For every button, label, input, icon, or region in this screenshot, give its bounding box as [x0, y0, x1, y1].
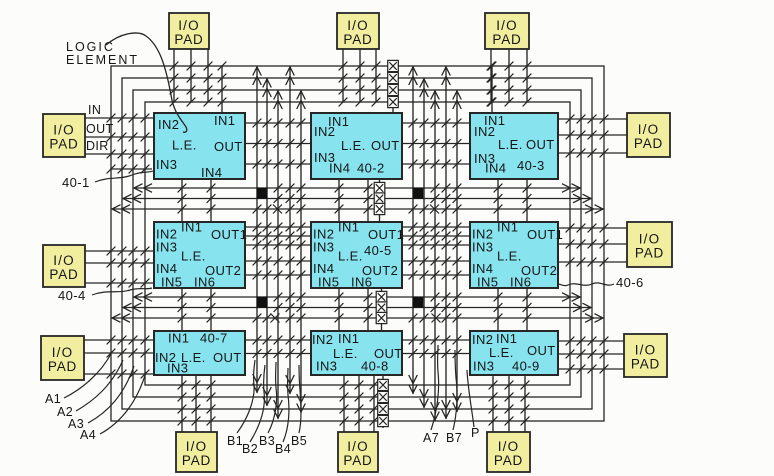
junction: filled connection square: [257, 297, 268, 308]
wire: left pad 1 leads: [85, 114, 154, 159]
wire: horizontal channel 1 line 3: [111, 205, 604, 214]
svg-text:IN1: IN1: [338, 220, 359, 235]
svg-text:IN5: IN5: [318, 275, 339, 290]
wire: IN1 stub column 1: [218, 62, 227, 113]
wire: right pad 1 leads: [558, 115, 627, 158]
wire: routing ring 4: [145, 102, 570, 385]
labels: logic element 40-4: [156, 220, 247, 290]
svg-text:IN6: IN6: [194, 275, 215, 290]
svg-text:L.E.: L.E.: [181, 249, 206, 264]
wire: vertical channel B2: [420, 78, 429, 408]
I/O pad 3: [485, 13, 529, 49]
svg-text:IN2: IN2: [158, 117, 179, 132]
svg-text:IN4: IN4: [485, 161, 506, 176]
wire: row 1 channel B interconnect lines: [402, 119, 470, 169]
wire: row 2 channel B interconnect lines: [402, 223, 470, 280]
svg-text:PAD: PAD: [174, 32, 203, 47]
label: 40-4 with leader: [58, 288, 152, 303]
svg-text:40-5: 40-5: [364, 243, 392, 258]
svg-text:IN: IN: [88, 103, 101, 117]
junction: x-mark: [432, 314, 441, 323]
svg-text:OUT1: OUT1: [368, 227, 404, 242]
wire: inter-row stubs column 1: [178, 179, 216, 331]
svg-text:40-3: 40-3: [517, 158, 545, 173]
svg-text:IN2: IN2: [312, 332, 333, 347]
svg-text:OUT: OUT: [527, 343, 556, 358]
svg-text:40-2: 40-2: [357, 161, 385, 176]
junction: x-mark: [430, 205, 439, 214]
labels: logic element 40-7: [155, 331, 242, 376]
wire: bottom pad 3 leads: [489, 375, 530, 432]
I/O pad 11: [627, 222, 672, 267]
wire: routing ring 1: [111, 66, 604, 421]
svg-text:P: P: [471, 426, 480, 440]
svg-text:40-8: 40-8: [361, 359, 389, 374]
wire: routing ring 2: [122, 78, 592, 409]
switch box stack: bottom channel: [378, 375, 389, 428]
switch box stack: channel 1: [374, 179, 385, 222]
logic element 40-2: [311, 113, 402, 179]
wire: row 3 channel B interconnect lines: [402, 336, 470, 358]
svg-text:PAD: PAD: [48, 359, 77, 374]
svg-text:PAD: PAD: [182, 453, 211, 468]
svg-text:A1: A1: [45, 392, 61, 406]
label: 40-6 with leader: [558, 275, 644, 290]
svg-text:OUT: OUT: [214, 139, 243, 154]
logic element 40-5: [311, 222, 402, 288]
svg-text:PAD: PAD: [343, 32, 372, 47]
wire: left pad 3 leads: [84, 336, 154, 379]
wire: IN1 stub column 3: [488, 62, 497, 113]
svg-text:IN1: IN1: [181, 220, 202, 235]
svg-text:IN3: IN3: [156, 157, 177, 172]
wire: vertical channel B1: [409, 66, 418, 394]
svg-text:OUT: OUT: [526, 137, 555, 152]
svg-text:PAD: PAD: [49, 137, 78, 152]
svg-text:PAD: PAD: [49, 267, 78, 282]
svg-text:IN5: IN5: [161, 275, 182, 290]
svg-text:I/O: I/O: [178, 18, 200, 33]
wire: horizontal channel 2 line 1: [133, 293, 581, 302]
logic element 40-6: [470, 222, 558, 288]
I/O pad 8: [43, 245, 85, 287]
wire: bottom pad 1 leads: [178, 375, 216, 432]
svg-text:IN3: IN3: [313, 240, 334, 255]
svg-text:L.E.: L.E.: [497, 249, 522, 264]
svg-text:B2: B2: [242, 442, 258, 456]
wire: row 3 channel A interconnect lines: [245, 336, 311, 358]
I/O pad 10: [627, 113, 670, 157]
svg-text:I/O: I/O: [53, 123, 75, 138]
junction: x-mark: [271, 314, 280, 323]
svg-text:IN3: IN3: [473, 359, 494, 374]
svg-text:IN3: IN3: [156, 240, 177, 255]
labels: logic element 40-2: [314, 114, 400, 176]
svg-text:L.E.: L.E.: [172, 138, 197, 153]
svg-text:OUT1: OUT1: [527, 227, 563, 242]
svg-text:ELEMENT: ELEMENT: [66, 53, 139, 67]
svg-text:IN1: IN1: [338, 331, 359, 346]
wire: right pad 2 leads: [558, 224, 627, 267]
wire: horizontal channel 1 line 1: [133, 184, 581, 193]
wire: vertical channel B3: [431, 90, 440, 421]
labels: logic element 40-6: [472, 220, 563, 290]
svg-text:DIR: DIR: [86, 139, 109, 153]
svg-text:I/O: I/O: [639, 232, 661, 247]
labels: logic element 40-8: [312, 331, 403, 374]
wire: vertical channel A5: [297, 90, 306, 413]
svg-text:I/O: I/O: [186, 439, 208, 454]
svg-text:I/O: I/O: [347, 439, 369, 454]
svg-text:40-7: 40-7: [200, 331, 228, 346]
svg-text:I/O: I/O: [496, 18, 518, 33]
logic element 40-4: [154, 222, 245, 288]
logic element 40-1: [154, 113, 245, 179]
svg-text:IN4: IN4: [201, 165, 222, 180]
svg-text:A7: A7: [423, 431, 439, 445]
svg-text:IN3: IN3: [316, 359, 337, 374]
svg-text:PAD: PAD: [634, 136, 663, 151]
wire: input stub row near 40-1: [107, 165, 152, 174]
wire: top pad 2 leads: [339, 49, 381, 106]
svg-text:40-4: 40-4: [58, 288, 86, 303]
svg-text:IN2: IN2: [314, 124, 335, 139]
svg-text:IN3: IN3: [167, 361, 188, 376]
wire: vertical channel A3: [274, 90, 283, 419]
wire: vertical channel A4: [286, 66, 295, 394]
wire: bottom pad 2 leads: [340, 375, 379, 432]
labels: logic element 40-9: [472, 331, 556, 374]
svg-text:PAD: PAD: [635, 246, 664, 261]
junction: filled connection square: [413, 297, 424, 308]
svg-text:IN1: IN1: [168, 331, 189, 346]
svg-text:IN2: IN2: [474, 124, 495, 139]
wire: top pad 1 leads: [170, 49, 213, 106]
label: LOGIC ELEMENT: [66, 40, 139, 67]
svg-text:B4: B4: [275, 442, 291, 456]
svg-text:PAD: PAD: [494, 453, 523, 468]
junction: x-mark: [273, 205, 282, 214]
junction: filled connection square: [257, 188, 268, 199]
svg-text:I/O: I/O: [635, 343, 657, 358]
svg-text:IN6: IN6: [510, 275, 531, 290]
labels: logic element 40-5: [313, 220, 404, 290]
wire: row 2 channel A interconnect lines: [245, 223, 311, 280]
svg-text:40-6: 40-6: [616, 275, 644, 290]
svg-text:OUT: OUT: [213, 350, 242, 365]
svg-text:LOGIC: LOGIC: [66, 40, 115, 54]
svg-text:B3: B3: [259, 434, 275, 448]
labels: logic element 40-3: [474, 113, 555, 176]
svg-text:40-9: 40-9: [512, 359, 540, 374]
leader: logic element pointer: [106, 33, 187, 132]
I/O pad 2: [337, 13, 379, 49]
wire: horizontal channel 1 line 2: [122, 194, 592, 203]
wire: inter-row stubs column 2: [335, 179, 373, 331]
wire: horizontal channel 2 line 3: [111, 314, 604, 323]
logic element 40-3: [470, 113, 558, 179]
labels: IN OUT DIR: [86, 103, 114, 153]
labels: A7 B7 P with leaders: [423, 345, 480, 445]
wire: vertical channel B5: [453, 90, 462, 412]
svg-text:L.E.: L.E.: [498, 137, 523, 152]
svg-text:I/O: I/O: [638, 122, 660, 137]
svg-text:IN1: IN1: [214, 113, 235, 128]
svg-text:PAD: PAD: [343, 453, 372, 468]
svg-text:I/O: I/O: [53, 253, 75, 268]
svg-text:IN1: IN1: [496, 331, 517, 346]
svg-text:I/O: I/O: [347, 18, 369, 33]
wire: row 1 channel A interconnect lines: [245, 119, 311, 169]
wire: vertical channel A1: [253, 66, 262, 393]
I/O pad 9: [41, 336, 84, 380]
switch box stack: channel 2: [376, 288, 387, 331]
svg-text:I/O: I/O: [498, 439, 520, 454]
I/O pad 4: [176, 432, 217, 472]
I/O pad 5: [338, 432, 378, 472]
svg-text:IN4: IN4: [329, 161, 350, 176]
labels: A1 A2 A3 A4 with leaders: [45, 352, 146, 442]
I/O pad 1: [169, 13, 209, 49]
I/O pad 6: [487, 432, 530, 472]
svg-text:B1: B1: [227, 434, 243, 448]
logic element 40-7: [154, 331, 245, 375]
svg-text:OUT: OUT: [86, 122, 114, 136]
labels: B1-B5 with leaders: [227, 360, 307, 456]
wire: right pad 3 leads: [558, 337, 624, 374]
switch box stack: top channel: [388, 60, 399, 113]
logic element 40-9: [470, 331, 558, 375]
svg-text:B5: B5: [291, 434, 307, 448]
svg-text:PAD: PAD: [492, 32, 521, 47]
wire: vertical channel B4: [442, 66, 451, 419]
svg-text:PAD: PAD: [631, 357, 660, 372]
svg-text:IN3: IN3: [472, 240, 493, 255]
wire: left pad 2 leads: [85, 247, 154, 288]
svg-text:IN1: IN1: [497, 220, 518, 235]
wire: top pad 3 leads: [487, 49, 532, 106]
svg-text:B7: B7: [446, 431, 462, 445]
svg-text:IN6: IN6: [351, 275, 372, 290]
wire: routing ring 3: [133, 90, 581, 397]
ticks: channel crossings: [253, 184, 462, 323]
wire: inter-row stubs column 3: [494, 179, 532, 331]
wire: horizontal channel 2 line 2: [122, 303, 592, 312]
logic element 40-8: [311, 331, 402, 375]
svg-text:L.E.: L.E.: [338, 249, 363, 264]
svg-text:OUT: OUT: [371, 138, 400, 153]
labels: logic element 40-1: [156, 113, 243, 180]
I/O pad 7: [43, 114, 85, 157]
wire: vertical channel A2: [263, 78, 272, 406]
junction: filled connection square: [413, 188, 424, 199]
svg-text:40-1: 40-1: [62, 175, 90, 190]
svg-text:OUT1: OUT1: [211, 227, 247, 242]
label: 40-1 with leader: [62, 171, 153, 190]
svg-text:IN5: IN5: [477, 275, 498, 290]
svg-text:I/O: I/O: [52, 345, 74, 360]
svg-text:L.E.: L.E.: [341, 138, 366, 153]
svg-text:A4: A4: [80, 428, 96, 442]
I/O pad 12: [624, 334, 667, 377]
